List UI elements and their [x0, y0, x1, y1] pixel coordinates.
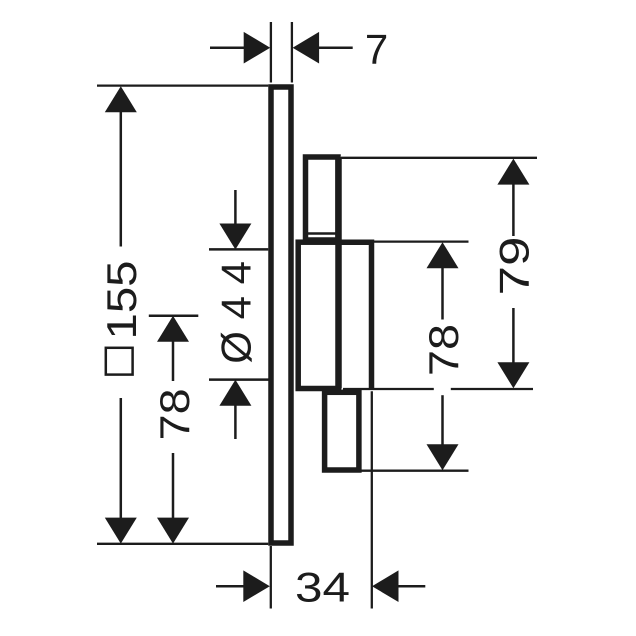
dimension 78 left upper line [172, 341, 175, 381]
dimension 78 left top arrowhead [157, 316, 189, 342]
dimension 7 right tail line [319, 46, 353, 49]
diameter 44 upper tick line [209, 248, 268, 251]
svg-text:155: 155 [98, 261, 145, 340]
dimension 34 right tail line [398, 585, 425, 588]
extension line sleeve bottom to 79 right segment [451, 388, 533, 390]
dimension 34 left tail line [216, 585, 244, 588]
extension line plate bottom horizontal [97, 543, 268, 545]
cartridge sleeve body [298, 242, 338, 388]
dimension 78 left lower line [172, 453, 175, 519]
svg-text:34: 34 [295, 564, 350, 611]
dimension 34 left arrowhead [243, 570, 269, 602]
bottom handle knob [325, 392, 359, 470]
diameter 44 up arrowhead [219, 380, 251, 406]
svg-text:79: 79 [490, 237, 537, 296]
dimension 34 right arrowhead [372, 570, 399, 602]
dimension 155 bottom arrowhead [105, 518, 137, 544]
diameter 44 lower tick line [209, 378, 269, 381]
svg-text:7: 7 [365, 26, 388, 73]
dimension 79 upper line [512, 184, 515, 236]
wall plate (escutcheon, side view) [271, 87, 291, 543]
extension line plate top-right vertical [291, 22, 293, 83]
extension line plate top-left vertical [270, 22, 272, 83]
extension line plate bottom-left vertical [270, 546, 272, 609]
diameter 44 down arrowhead [219, 224, 251, 250]
sleeve outer ring right edge [369, 240, 375, 390]
dimension 78 right top arrowhead [427, 242, 459, 268]
extension line plate top horizontal [97, 84, 268, 86]
dimension 79 lower line [512, 308, 515, 363]
dimension 78 right upper line [441, 267, 444, 319]
svg-text:78: 78 [420, 324, 467, 376]
top handle base line [305, 232, 339, 235]
dimension 155 upper line [120, 111, 123, 246]
dimension 79 bottom arrowhead [497, 362, 529, 388]
diameter 44 upper line [234, 190, 237, 225]
sleeve outer ring top edge [340, 239, 372, 245]
svg-text:78: 78 [151, 388, 198, 440]
top handle knob [306, 157, 339, 240]
extension line sleeve bottom to 79 left segment [343, 388, 434, 390]
extension line top knob to 79 [341, 157, 537, 159]
dimension 7 right arrowhead [293, 32, 320, 64]
extension line sleeve right bottom vertical [371, 391, 373, 608]
dimension 78 left bottom arrowhead [157, 518, 189, 544]
diameter 44 lower line [234, 405, 237, 439]
handle grip right edge bar [335, 157, 342, 389]
tick line at sleeve centerline left [149, 314, 199, 317]
dimension 78 right lower line [441, 395, 444, 445]
dimension 155 lower line [120, 398, 123, 519]
dimension 7 left tail line [210, 46, 244, 49]
extension line bottom knob to 78 [362, 470, 469, 472]
dimension 78 right bottom arrowhead [427, 444, 459, 470]
svg-text:Ø 4 4: Ø 4 4 [213, 261, 260, 364]
dimension 79 top arrowhead [497, 159, 529, 185]
square symbol of 155 label [106, 348, 133, 375]
extension line sleeve top to 78 [372, 240, 469, 242]
dimension 155 top arrowhead [105, 86, 137, 112]
dimension 7 left arrowhead [244, 32, 271, 64]
